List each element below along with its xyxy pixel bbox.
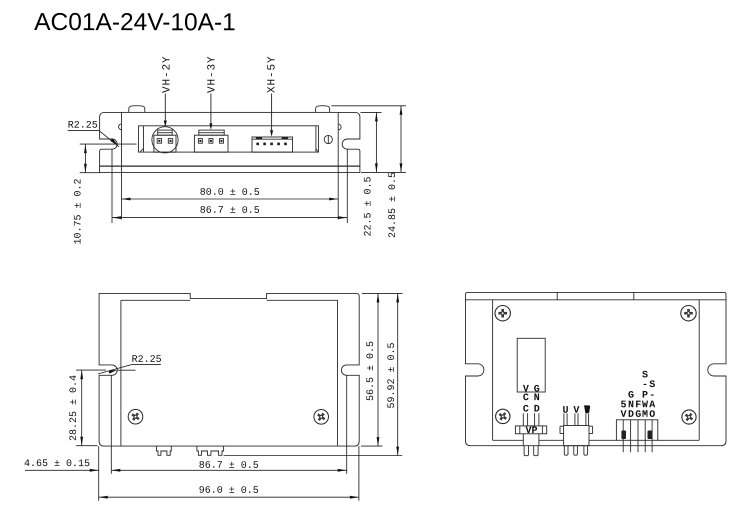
- svg-text:VP: VP: [525, 426, 537, 437]
- svg-text:56.5 ± 0.5: 56.5 ± 0.5: [366, 341, 377, 401]
- svg-text:U: U: [562, 406, 568, 417]
- svg-text:86.7 ± 0.5: 86.7 ± 0.5: [200, 206, 260, 217]
- svg-text:O: O: [649, 410, 655, 421]
- svg-text:XH-5Y: XH-5Y: [267, 55, 279, 93]
- svg-text:4.65 ± 0.15: 4.65 ± 0.15: [24, 459, 90, 470]
- svg-text:86.7 ± 0.5: 86.7 ± 0.5: [199, 461, 259, 472]
- svg-text:D: D: [534, 404, 540, 415]
- svg-text:24.85 ± 0.5: 24.85 ± 0.5: [388, 172, 399, 238]
- svg-text:C: C: [523, 393, 529, 404]
- svg-text:D: D: [628, 410, 634, 421]
- svg-text:N: N: [534, 393, 540, 404]
- svg-text:R2.25: R2.25: [132, 355, 162, 366]
- svg-text:22.5 ± 0.5: 22.5 ± 0.5: [364, 176, 375, 236]
- svg-text:S: S: [649, 380, 655, 391]
- svg-text:96.0 ± 0.5: 96.0 ± 0.5: [199, 486, 259, 497]
- svg-text:V: V: [573, 406, 579, 417]
- svg-text:VH-3Y: VH-3Y: [206, 55, 218, 93]
- svg-text:M: M: [642, 410, 648, 421]
- svg-text:AC01A-24V-10A-1: AC01A-24V-10A-1: [34, 9, 236, 36]
- svg-text:VH-2Y: VH-2Y: [162, 55, 174, 93]
- svg-text:V: V: [620, 410, 626, 421]
- svg-text:59.92 ± 0.5: 59.92 ± 0.5: [387, 342, 398, 408]
- svg-text:C: C: [523, 404, 529, 415]
- svg-text:R2.25: R2.25: [68, 121, 98, 132]
- svg-text:10.75 ± 0.2: 10.75 ± 0.2: [74, 178, 85, 244]
- svg-text:80.0 ± 0.5: 80.0 ± 0.5: [200, 188, 260, 199]
- svg-text:G: G: [635, 410, 641, 421]
- svg-text:28.25 ± 0.4: 28.25 ± 0.4: [69, 375, 80, 441]
- svg-text:-: -: [642, 380, 648, 391]
